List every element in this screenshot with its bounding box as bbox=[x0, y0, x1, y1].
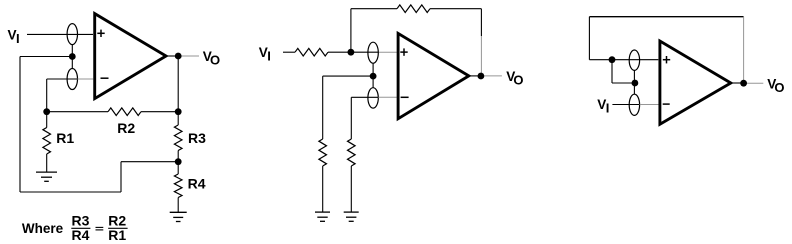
wire output bbox=[166, 55, 178, 57]
wire top feedback left bbox=[351, 8, 397, 10]
wire link between ellipses bbox=[372, 63, 374, 87]
wire R2 right lead bbox=[141, 111, 178, 113]
wire dot B to left bias resistor bbox=[323, 75, 373, 77]
node dot output bbox=[175, 53, 182, 60]
wire node A up bbox=[350, 9, 352, 53]
wire link between ellipses bbox=[71, 45, 73, 69]
ground G3 bbox=[315, 211, 330, 213]
resistor bias 2 bbox=[348, 139, 356, 166]
wire R1 to ground bbox=[46, 154, 48, 172]
resistor R4 bbox=[177, 162, 179, 174]
node dot output (middle) bbox=[478, 73, 485, 80]
junction dot B bbox=[370, 73, 377, 80]
wire VI to input resistor bbox=[283, 51, 295, 53]
node dot A bbox=[348, 49, 355, 56]
svg-text:I: I bbox=[16, 31, 20, 46]
svg-text:Where: Where bbox=[22, 221, 64, 236]
wire output (right) bbox=[731, 82, 745, 84]
node dot right1 bbox=[609, 56, 616, 63]
wire VI to - input bbox=[612, 104, 639, 106]
wire dot1 down bbox=[611, 60, 613, 83]
node dot R2 left bbox=[43, 108, 50, 115]
wire feedback left down bbox=[588, 17, 590, 60]
resistor R3 bbox=[177, 112, 179, 125]
ellipse E6 on - input bbox=[629, 94, 639, 115]
wire output (middle) bbox=[469, 75, 481, 77]
wire inverting input bbox=[47, 78, 78, 80]
op-amp U1 bbox=[95, 14, 166, 99]
svg-text:R1: R1 bbox=[56, 130, 74, 146]
ground G1 bbox=[36, 171, 57, 173]
wire link between ellipses (right) bbox=[633, 71, 635, 95]
node dot R2 right / R3 top bbox=[175, 108, 182, 115]
junction dot between ellipses bbox=[69, 53, 76, 60]
resistor feedback (middle) bbox=[397, 5, 430, 13]
ground G2 bbox=[170, 211, 187, 213]
ellipse E2 on - input bbox=[67, 69, 77, 90]
wire feedback down to output bbox=[480, 9, 482, 36]
wire bottom run bbox=[20, 191, 121, 193]
wire - corner down to bias resistor 2 bbox=[350, 97, 352, 139]
ground G4 bbox=[344, 211, 359, 213]
svg-text:R4: R4 bbox=[188, 176, 206, 192]
wire VI to noninverting input bbox=[27, 33, 93, 35]
wire resistor to node A bbox=[328, 51, 351, 53]
wire R2 left lead bbox=[47, 111, 108, 113]
wire up to R3/R4 node bbox=[120, 162, 122, 192]
wire node A to + input bbox=[351, 51, 379, 53]
wire + input (right) bbox=[589, 59, 658, 61]
ellipse E4 on - input bbox=[368, 88, 378, 108]
op-amp U3 bbox=[660, 41, 731, 124]
ellipse E5 on + input bbox=[629, 50, 639, 70]
wire - input bbox=[351, 96, 378, 98]
svg-text:I: I bbox=[606, 101, 610, 116]
resistor bias 1 bbox=[319, 139, 327, 166]
svg-text:R2: R2 bbox=[117, 120, 135, 136]
ellipse E1 on + input bbox=[67, 24, 77, 45]
node dot output (right) bbox=[740, 80, 747, 87]
wire across to link bbox=[612, 82, 634, 84]
wire to R3/R4 junction bbox=[121, 161, 178, 163]
svg-text:R4: R4 bbox=[72, 227, 90, 243]
wire feedback right down bbox=[743, 17, 745, 84]
svg-text:O: O bbox=[774, 80, 784, 95]
wire left rail down bbox=[19, 57, 21, 193]
wire top feedback right bbox=[430, 8, 481, 10]
ellipse E3 on + input bbox=[368, 42, 378, 63]
wire top feedback (right) bbox=[589, 16, 743, 18]
resistor R2 bbox=[108, 108, 141, 116]
svg-text:I: I bbox=[267, 48, 271, 63]
junction dot right2 bbox=[632, 80, 639, 87]
wire output down to R3 bbox=[177, 56, 179, 112]
svg-text:O: O bbox=[210, 53, 220, 68]
svg-text:O: O bbox=[513, 73, 523, 88]
svg-text:R1: R1 bbox=[108, 227, 126, 243]
svg-text:R3: R3 bbox=[188, 130, 206, 146]
resistor R1 bbox=[46, 112, 48, 128]
wire dot to left rail bbox=[20, 56, 72, 58]
op-amp U2 bbox=[398, 33, 469, 118]
wire - input down to R2 node bbox=[46, 79, 48, 112]
resistor input (middle) bbox=[295, 48, 328, 56]
node dot R3/R4 bbox=[175, 158, 182, 165]
